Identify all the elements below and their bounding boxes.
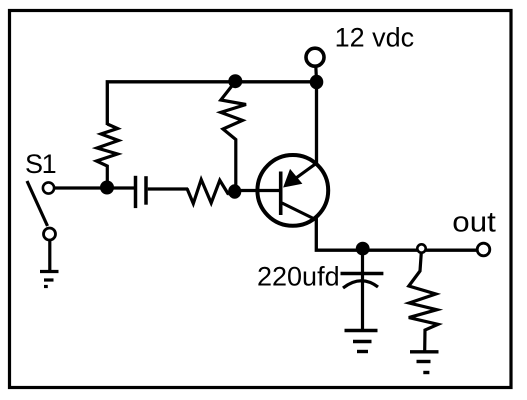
junction node out — [356, 242, 370, 256]
transistor emitter line with arrow — [294, 163, 317, 180]
ground under R4 — [410, 352, 439, 373]
resistor R3 horizontal — [187, 180, 229, 204]
ground under S1 — [40, 272, 59, 287]
out terminal circle — [477, 243, 490, 256]
svg-text:S1: S1 — [25, 149, 56, 179]
transistor base bar — [279, 172, 283, 216]
transistor arrowhead — [284, 170, 301, 186]
transistor collector line — [282, 203, 316, 220]
ground under C2 — [345, 331, 378, 352]
wire to base — [228, 192, 235, 195]
svg-text:out: out — [452, 207, 496, 239]
stub terminal to rail — [314, 66, 318, 81]
capacitor C2 top plate — [341, 272, 384, 275]
svg-text:12 vdc: 12 vdc — [335, 23, 415, 53]
wire S1 to capacitor — [55, 186, 135, 189]
capacitor C2 curved plate — [343, 281, 378, 288]
resistor R2 — [221, 85, 246, 187]
wire 12vdc to transistor — [315, 81, 318, 163]
resistor R4 — [409, 253, 438, 351]
capacitor C1 right plate — [144, 176, 148, 205]
switch S1 lower circle — [44, 228, 56, 240]
small open junction circle — [417, 244, 425, 252]
wire switch to ground — [48, 241, 51, 271]
svg-text:220ufd: 220ufd — [257, 262, 340, 292]
wire capacitor to resistor — [148, 187, 188, 190]
junction dot 12vdc — [310, 75, 324, 89]
12vdc terminal circle — [306, 48, 324, 66]
wire base junction to transistor — [235, 189, 281, 192]
junction node A — [100, 181, 114, 195]
wire junction to capacitor C2 — [361, 250, 364, 330]
transistor Q1 circle — [257, 155, 328, 226]
top rail wire — [107, 82, 316, 125]
switch S1 arm — [27, 181, 48, 226]
junction dot on rail — [228, 74, 242, 88]
resistor R1 — [97, 124, 119, 181]
wire transistor down to out line — [316, 218, 477, 250]
capacitor C1 left plate — [134, 176, 138, 208]
switch S1 terminal circle — [43, 182, 54, 193]
junction node base — [228, 184, 241, 199]
